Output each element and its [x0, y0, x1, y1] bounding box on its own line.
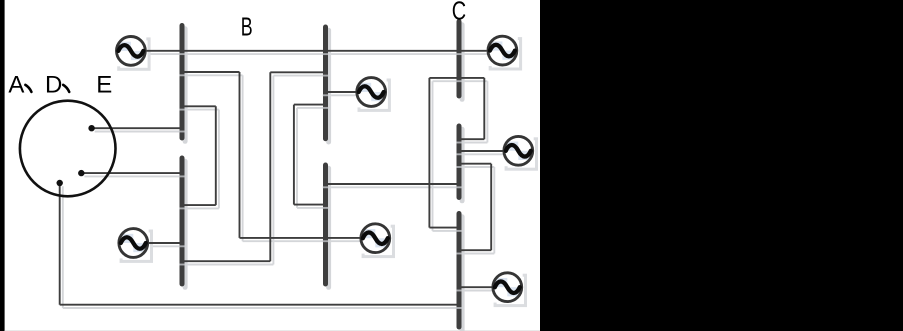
- bus B1 upper section: [180, 26, 185, 139]
- generator G3: [357, 78, 386, 107]
- wire G5 to B1: [149, 242, 181, 244]
- wire B1 upper to B2 lower / G6: [184, 72, 360, 238]
- node A tap dot 3: [57, 180, 63, 186]
- generator G4 background: [503, 135, 537, 169]
- bus B2 upper section: [323, 27, 328, 139]
- wire C to G7: [461, 286, 492, 288]
- bus B2 lower section: [323, 165, 328, 284]
- generator G3 background: [356, 77, 390, 111]
- bus C middle section: [457, 126, 462, 198]
- shadow layer (drop shadows of wires and buses): [63, 25, 506, 331]
- wire C upper cross tap: [429, 77, 484, 79]
- wire B2 to G3: [328, 91, 356, 93]
- wire C upper to C middle right jumper: [461, 78, 484, 139]
- wire node A tap3 to bus C bottom: [60, 183, 457, 305]
- wire C middle to C lower jumper: [461, 164, 491, 251]
- svg-text:E: E: [96, 72, 112, 99]
- svg-text:C: C: [452, 0, 466, 25]
- right black region: [540, 0, 903, 331]
- generator G5: [119, 229, 148, 258]
- wire G1 to G2 through buses B1 B2 C: [147, 50, 487, 52]
- wire B2 upper to B1 lower: [184, 72, 324, 261]
- svg-text:D: D: [45, 72, 62, 99]
- generator G2: [488, 36, 517, 65]
- wire C to G4: [461, 150, 503, 152]
- generator G6: [361, 224, 390, 253]
- wire C upper to C lower left jumper: [429, 78, 457, 228]
- generator G6 background: [360, 223, 394, 257]
- svg-text:B: B: [241, 12, 253, 41]
- generator G1: [116, 37, 145, 66]
- node A tap dot 1: [88, 125, 94, 131]
- bus C bottom section: [457, 214, 462, 328]
- ideographic comma 2: [63, 85, 69, 92]
- node A tap dot 2: [78, 170, 84, 176]
- wire node A tap1 to B1: [92, 127, 181, 129]
- wire B2 upper-lower jumper: [294, 105, 324, 205]
- generator G5 background: [118, 228, 152, 262]
- svg-text:A: A: [8, 72, 24, 99]
- node A big circle: [20, 101, 116, 197]
- generator G1 background: [115, 36, 149, 70]
- generator G2 background: [487, 35, 521, 69]
- faint bottom edge line: [5, 330, 540, 331]
- generator G7 background: [492, 272, 526, 306]
- ideographic comma 1: [25, 85, 31, 92]
- bus B1 lower section: [180, 158, 185, 284]
- wire node A tap2 to B1: [81, 172, 180, 174]
- left black border strip: [0, 0, 5, 331]
- generator G4: [504, 136, 533, 165]
- generator G7: [493, 273, 522, 302]
- wire B2 lower to C middle: [328, 183, 457, 185]
- wire shadow notches on buses: [179, 53, 461, 309]
- wire B1 upper-lower jumper: [184, 106, 216, 205]
- bus C top section: [457, 22, 462, 97]
